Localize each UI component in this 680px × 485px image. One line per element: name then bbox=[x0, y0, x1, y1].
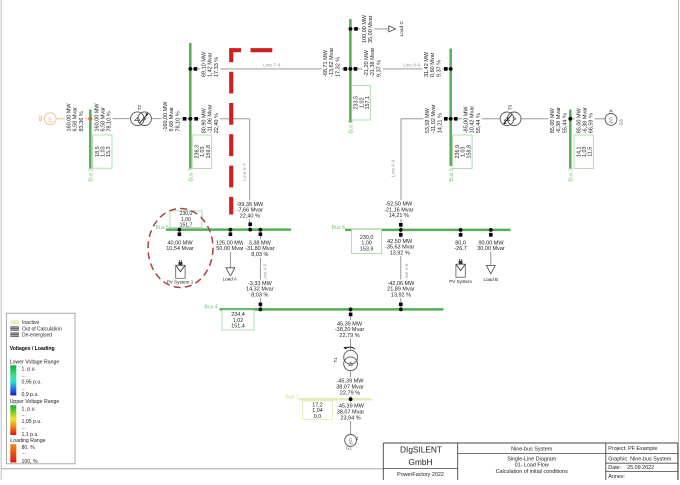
svg-text:Project: PF Example: Project: PF Example bbox=[608, 446, 657, 452]
svg-text:18,51,0315,3: 18,51,0315,3 bbox=[95, 146, 112, 157]
svg-text:17,21,040,0: 17,21,040,0 bbox=[312, 402, 323, 419]
svg-text:Bus 5: Bus 5 bbox=[156, 225, 169, 231]
svg-text:Line 8-9: Line 8-9 bbox=[403, 63, 421, 69]
svg-text:40,00 MW10,54 Mvar: 40,00 MW10,54 Mvar bbox=[166, 240, 194, 252]
svg-text:G: G bbox=[48, 116, 52, 121]
svg-text:PowerFactory 2022: PowerFactory 2022 bbox=[397, 472, 444, 478]
svg-text:0,9 p.u.: 0,9 p.u. bbox=[22, 392, 39, 398]
svg-text:Nine-bus System: Nine-bus System bbox=[511, 447, 553, 453]
svg-text:01- Load Flow: 01- Load Flow bbox=[515, 462, 549, 468]
svg-text:Bus 4: Bus 4 bbox=[204, 305, 217, 311]
svg-text:234,41,02151,4: 234,41,02151,4 bbox=[231, 312, 245, 329]
svg-text:Line 4-6: Line 4-6 bbox=[404, 263, 410, 281]
svg-text:T1: T1 bbox=[333, 357, 338, 363]
svg-text:Loading Range: Loading Range bbox=[10, 438, 45, 444]
svg-text:-45,39 MW38,07 Mvar23,94 %: -45,39 MW38,07 Mvar23,94 % bbox=[337, 404, 365, 422]
svg-text:Line 6-9: Line 6-9 bbox=[391, 159, 397, 177]
svg-text:90,00 MW30,00 Mvar: 90,00 MW30,00 Mvar bbox=[477, 240, 505, 252]
svg-text:DIgSILENT: DIgSILENT bbox=[400, 444, 442, 454]
svg-text:Calculation of initial conditi: Calculation of initial conditions bbox=[496, 469, 569, 475]
svg-text:236,91,03158,8: 236,91,03158,8 bbox=[455, 145, 472, 159]
svg-text:GmbH: GmbH bbox=[409, 457, 433, 467]
svg-text:125,00 MW50,00 Mvar: 125,00 MW50,00 Mvar bbox=[216, 240, 245, 252]
svg-text:...: ... bbox=[22, 425, 26, 431]
svg-text:...: ... bbox=[22, 372, 26, 378]
svg-text:...: ... bbox=[22, 450, 26, 456]
svg-text:Load C: Load C bbox=[399, 20, 405, 36]
svg-text:236,31,03159,8: 236,31,03159,8 bbox=[195, 145, 212, 159]
svg-text:Voltages / Loading: Voltages / Loading bbox=[10, 346, 55, 352]
svg-text:Line 4-5: Line 4-5 bbox=[263, 263, 269, 281]
svg-text:Bus 6: Bus 6 bbox=[332, 225, 345, 231]
svg-text:1,1 p.u.: 1,1 p.u. bbox=[22, 432, 39, 438]
svg-text:100,00 MW35,00 Mvar: 100,00 MW35,00 Mvar bbox=[362, 14, 374, 43]
svg-text:Bus 8: Bus 8 bbox=[349, 120, 355, 133]
svg-text:G3: G3 bbox=[618, 119, 623, 126]
svg-text:Load A: Load A bbox=[223, 276, 238, 281]
svg-text:230,01,00153,9: 230,01,00153,9 bbox=[360, 235, 374, 252]
svg-text:Bus 1: Bus 1 bbox=[285, 395, 298, 401]
svg-text:14,11,0311,5: 14,11,0311,5 bbox=[576, 147, 593, 158]
svg-text:233,51,02157,1: 233,51,02157,1 bbox=[354, 96, 371, 110]
svg-text:80,0-26,7: 80,0-26,7 bbox=[454, 240, 467, 252]
svg-text:Date: 25.09.2022: Date: 25.09.2022 bbox=[608, 465, 654, 471]
svg-text:Inactive: Inactive bbox=[22, 320, 39, 326]
svg-text:Upper Voltage Range: Upper Voltage Range bbox=[10, 399, 60, 405]
svg-text:Graphic: Nine-bus System: Graphic: Nine-bus System bbox=[608, 457, 671, 463]
svg-text:T2: T2 bbox=[137, 104, 142, 110]
svg-text:Lower Voltage Range: Lower Voltage Range bbox=[10, 359, 60, 365]
svg-text:G: G bbox=[609, 117, 613, 122]
svg-text:Bus 9: Bus 9 bbox=[449, 168, 455, 181]
svg-text:-42,06 MW21,89 Mvar13,92 %: -42,06 MW21,89 Mvar13,92 % bbox=[387, 281, 415, 299]
svg-text:PV System: PV System bbox=[449, 279, 472, 284]
svg-text:T3: T3 bbox=[507, 104, 512, 110]
svg-text:PV System 1: PV System 1 bbox=[167, 279, 194, 284]
svg-text:...: ... bbox=[22, 385, 26, 391]
svg-text:Line 5-7: Line 5-7 bbox=[242, 163, 248, 181]
svg-text:Line 7-8: Line 7-8 bbox=[263, 63, 281, 69]
svg-text:...: ... bbox=[22, 412, 26, 418]
svg-text:100, %: 100, % bbox=[22, 459, 39, 465]
svg-text:Annex:: Annex: bbox=[608, 474, 625, 480]
svg-text:G1: G1 bbox=[346, 446, 353, 451]
svg-text:Out of Calculation: Out of Calculation bbox=[22, 326, 62, 332]
svg-text:Bus 7: Bus 7 bbox=[188, 168, 194, 181]
svg-text:G2: G2 bbox=[38, 115, 43, 122]
svg-text:-45,39 MW38,07 Mvar22,79 %: -45,39 MW38,07 Mvar22,79 % bbox=[336, 379, 364, 397]
svg-text:Load B: Load B bbox=[484, 277, 499, 282]
svg-text:G: G bbox=[349, 438, 353, 443]
svg-text:Bus 2: Bus 2 bbox=[88, 168, 94, 181]
svg-text:-99,38 MW-7,66 Mvar22,40 %: -99,38 MW-7,66 Mvar22,40 % bbox=[236, 202, 264, 220]
svg-text:De-energised: De-energised bbox=[22, 332, 52, 338]
svg-text:Bus 3: Bus 3 bbox=[568, 168, 574, 181]
svg-text:230,01,00151,7: 230,01,00151,7 bbox=[180, 211, 193, 228]
